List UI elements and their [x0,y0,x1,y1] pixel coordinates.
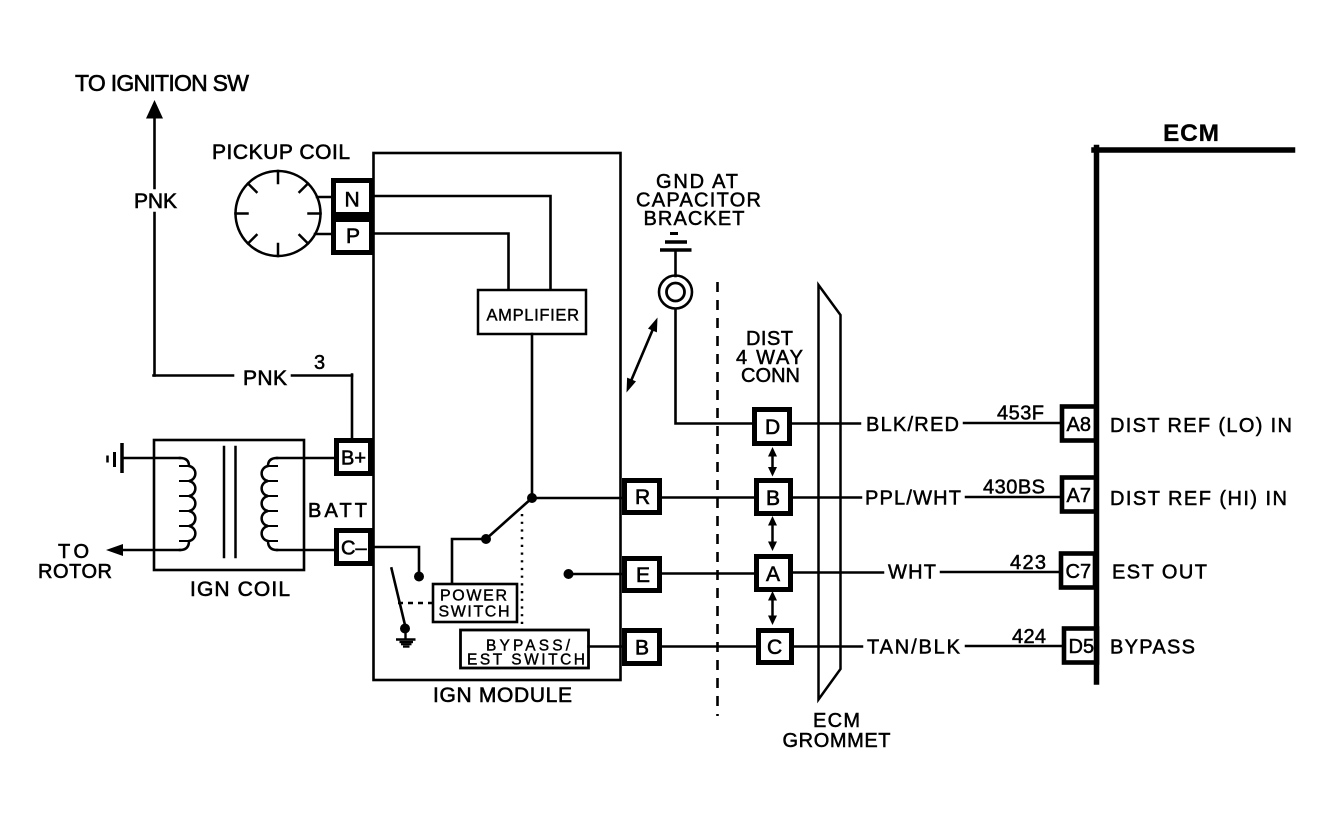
arrow to ignition switch [146,100,163,119]
svg-text:TAN/BLK: TAN/BLK [867,637,961,659]
wire PNK horizontal right [292,374,352,377]
svg-text:EST SWITCH: EST SWITCH [467,652,585,669]
terminal C- [337,531,371,564]
bypass/est switch box [461,630,589,668]
primary winding [180,458,195,550]
wire EST contact to E [569,573,623,576]
dashed separator line [716,282,719,716]
wire PNK vertical upper [153,119,156,188]
svg-text:A7: A7 [1067,485,1091,507]
wire ring terminal to D [676,309,753,424]
wire PPL/WHT to A7 [966,496,1061,499]
svg-text:TO IGNITION SW: TO IGNITION SW [75,70,249,96]
svg-text:453F: 453F [997,403,1044,425]
svg-text:A: A [766,563,780,586]
wire D to BLK/RED [790,422,860,425]
svg-text:PICKUP COIL: PICKUP COIL [212,141,350,164]
wire pickup coil to N [317,196,333,199]
svg-text:PNK: PNK [134,190,177,213]
open switch lever (C-) [392,569,406,626]
transformer core [224,447,236,557]
svg-text:E: E [636,564,650,587]
wire A(dist) to WHT [791,571,883,574]
svg-text:ECM: ECM [1163,120,1219,147]
svg-text:C: C [767,636,782,659]
arrow A-C [768,591,777,625]
svg-text:CONN: CONN [741,365,800,387]
wire ground to primary coil [123,457,180,460]
wire WHT to C7 [941,571,1060,574]
terminal R [625,481,660,513]
switch contact node (C-) [414,572,424,582]
svg-text:PPL/WHT: PPL/WHT [865,488,961,510]
terminal A7 [1062,478,1096,512]
power switch box [433,584,517,622]
svg-text:P: P [346,225,360,248]
svg-text:D: D [765,416,780,439]
power switch lever [486,498,532,539]
svg-text:SWITCH: SWITCH [439,604,510,621]
connector P [334,220,372,253]
pickup coil circle [236,171,321,256]
wire bypass box to B [589,645,623,648]
wire pickup coil to P [315,233,333,236]
svg-text:B: B [635,637,649,660]
terminal D5 [1064,629,1097,663]
amplifier box [478,290,586,334]
wire C(dist) to TAN/BLK [791,645,862,648]
wire secondary to B+ [277,457,334,460]
svg-text:PNK: PNK [243,367,287,390]
terminal A8 [1062,407,1096,441]
wire C- to switch contact [374,547,419,573]
ring terminal outer [659,276,692,309]
svg-text:TO: TO [58,541,89,563]
svg-text:C–: C– [341,538,367,560]
switch ground node [400,624,410,634]
ecm bracket vertical [1094,148,1100,683]
ground (switch) [396,631,416,647]
svg-text:GROMMET: GROMMET [783,730,891,752]
wire PNK horizontal left [154,374,234,377]
svg-text:DIST REF (LO) IN: DIST REF (LO) IN [1110,415,1292,437]
wire E to A (dist) [662,572,754,575]
arrow D-B [768,447,777,477]
wire secondary to C- [277,549,334,552]
wire ground symbol to ring terminal [674,252,677,276]
arrow to rotor [106,544,123,556]
svg-text:ROTOR: ROTOR [38,561,112,583]
svg-text:IGN COIL: IGN COIL [190,578,290,601]
svg-text:R: R [635,486,650,509]
ecm grommet panel [819,285,841,700]
terminal C7 [1061,554,1095,588]
secondary winding [262,458,277,550]
svg-text:B+: B+ [341,448,366,470]
svg-text:BYPASS: BYPASS [1110,637,1195,659]
svg-text:IGN MODULE: IGN MODULE [433,684,572,707]
svg-text:3: 3 [314,352,325,374]
svg-text:B: B [766,487,780,510]
wire R to B (dist) [662,496,754,499]
wire junction to R [532,497,622,500]
ground (ign coil) [108,443,123,473]
connector N [334,181,372,215]
svg-text:AMPLIFIER: AMPLIFIER [487,307,580,325]
svg-text:DIST REF (HI) IN: DIST REF (HI) IN [1110,488,1287,510]
svg-text:EST OUT: EST OUT [1112,562,1207,584]
connector C [759,631,792,663]
EST contact node [564,569,574,579]
terminal E [625,559,660,591]
dotted linkage line [521,514,524,629]
wire contact to power switch box [452,539,486,584]
ign coil box [154,440,304,570]
wire TAN/BLK to D5 [966,645,1063,648]
power switch contact node [481,534,491,544]
connector A [757,557,791,590]
svg-text:ECM: ECM [813,710,860,732]
svg-text:424: 424 [1012,626,1046,648]
svg-text:POWER: POWER [440,588,507,605]
ring terminal inner [667,283,685,301]
svg-text:423: 423 [1010,552,1046,574]
wire primary to rotor [120,549,180,552]
svg-text:N: N [345,189,360,212]
annotation double arrow [627,318,658,393]
wire N to amplifier [374,196,551,290]
svg-text:430BS: 430BS [983,477,1045,499]
wire amplifier to junction [531,334,534,498]
wire B(dist) to PPL/WHT [790,496,861,499]
wire B module to C (dist) [662,645,756,648]
wire PNK vertical lower [153,213,156,376]
wire BLK/RED to A8 [964,422,1061,425]
connector B (dist) [757,481,791,514]
svg-text:C7: C7 [1066,561,1092,583]
arrow B-A [768,516,777,551]
ground at capacitor bracket symbol [660,234,692,251]
svg-text:BLK/RED: BLK/RED [866,414,959,436]
junction node [527,493,537,503]
ign module box [374,153,621,680]
wire P to amplifier [374,234,509,291]
terminal B+ [337,441,371,474]
wire to B+ terminal [351,375,354,439]
connector D [755,410,790,444]
pickup coil tick marks [236,171,321,256]
terminal B (module) [625,631,660,664]
ecm bracket horizontal [1094,147,1293,153]
svg-text:WHT: WHT [888,562,936,584]
svg-text:D5: D5 [1069,636,1095,658]
svg-text:A8: A8 [1067,414,1091,436]
dashed linkage to lever [398,602,432,605]
svg-text:BRACKET: BRACKET [644,208,745,230]
